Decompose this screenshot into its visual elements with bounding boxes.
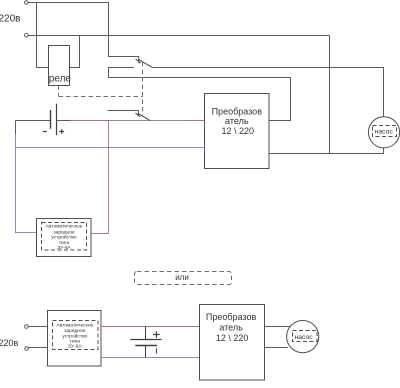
dashed or-box (135, 272, 232, 285)
converter U1 box (205, 94, 270, 169)
wire blue2 charger to converter (101, 357, 200, 359)
svg-text:ЗУ-6А: ЗУ-6А (57, 245, 71, 251)
svg-text:устройство: устройство (51, 234, 76, 241)
wire relay coil right (from mains N) (70, 36, 80, 68)
wire red battery plus (70, 120, 110, 122)
terminal L (top input) (25, 1, 29, 5)
svg-text:атель: атель (225, 116, 249, 126)
svg-text:Автоматическое: Автоматическое (56, 322, 93, 328)
wire terminal L2 to charger (28, 326, 47, 328)
switch S1 blade (139, 60, 152, 67)
battery B2 plus label (153, 331, 160, 338)
pump M1 circle (368, 117, 399, 148)
svg-text:реле: реле (49, 74, 72, 85)
switch S1 contact tick (136, 57, 141, 64)
terminal L2 (25, 325, 29, 329)
relay coil box (49, 46, 70, 86)
battery B2 plus plate (130, 339, 161, 341)
wire battery plus stub gray (57, 120, 71, 122)
battery B2 top lead (145, 327, 147, 340)
wire red to converter plus input (186, 120, 205, 122)
converter U2 box (200, 305, 265, 381)
charger AZU2 inner dashed (53, 321, 99, 350)
battery B2 minus tick label (156, 348, 158, 353)
svg-text:атель: атель (219, 322, 243, 332)
charger AZU1 box (37, 219, 92, 257)
svg-text:ЗУ-6А: ЗУ-6А (68, 344, 82, 350)
svg-text:Автоматическое: Автоматическое (46, 224, 83, 230)
relay linkage dashed vertical to blades (142, 62, 144, 116)
wire relay coil left (from mains L) (37, 3, 49, 68)
svg-text:насос: насос (295, 334, 314, 341)
wire pump bottom to converter output 2 (269, 148, 384, 154)
wire red2 charger to converter (101, 326, 200, 328)
svg-text:устройство: устройство (62, 332, 87, 339)
svg-text:12 \ 220: 12 \ 220 (216, 333, 249, 343)
wire left vertical blue part to charger (16, 134, 37, 233)
battery B1 minus label (43, 131, 47, 133)
battery B2 bottom lead (145, 346, 147, 358)
wire N vertical to pump bottom line (329, 36, 331, 154)
svg-text:Преобразов: Преобразов (206, 312, 257, 322)
terminal N2 (25, 347, 29, 351)
wire mains L: terminal to switch S1 upper contact (28, 3, 139, 57)
wire battery minus to left vertical (16, 120, 51, 122)
svg-text:или: или (175, 273, 189, 282)
wire red down to charger (91, 121, 109, 234)
svg-text:насос: насос (375, 129, 394, 136)
charger AZU2 box (48, 311, 102, 367)
wire gray segment under switch S2 (110, 120, 186, 122)
relay linkage dashed down from coil (58, 86, 60, 97)
wire S1 common to pump top (152, 68, 384, 118)
switch S2 upper contact wire (108, 110, 139, 112)
wire left vertical (battery minus down) gray part (15, 121, 17, 136)
pump M2 dashed label box (293, 331, 318, 342)
svg-text:Преобразов: Преобразов (212, 106, 263, 116)
charger AZU1 inner dashed (42, 223, 87, 251)
battery B1 minus plate (50, 110, 52, 129)
wire blue battery minus to converter input (16, 147, 205, 149)
battery B2 minus plate (135, 345, 157, 347)
switch S2 blade (139, 114, 150, 121)
svg-text:220в: 220в (0, 338, 19, 348)
relay linkage dashed horizontal (59, 96, 143, 98)
battery B1 plus plate (56, 104, 58, 135)
svg-text:220в: 220в (0, 13, 21, 24)
battery B1 plus label (59, 129, 64, 134)
pump M1 dashed label box (373, 126, 397, 137)
pump M2 circle (287, 321, 319, 353)
wire mains N: terminal to right vertical (28, 35, 329, 37)
svg-text:12 \ 220: 12 \ 220 (222, 126, 255, 136)
wire S1 lower contact loop to converter output (109, 68, 291, 121)
wire converter U2 to pump top (265, 326, 290, 328)
switch S2 contact tick (136, 111, 140, 117)
svg-text:зарядное: зарядное (64, 329, 86, 334)
terminal N (second input) (25, 33, 29, 37)
wire converter U2 to pump bottom (265, 347, 288, 349)
svg-text:зарядное: зарядное (53, 230, 75, 235)
wire terminal N2 to charger (29, 347, 48, 349)
